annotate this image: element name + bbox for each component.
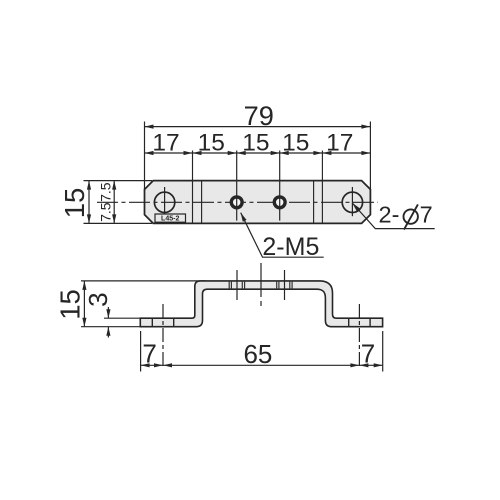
svg-text:15: 15 bbox=[59, 188, 90, 219]
front dim 15 line bbox=[83, 281, 85, 327]
svg-text:L45-2: L45-2 bbox=[161, 216, 179, 223]
front center axis bbox=[260, 263, 262, 306]
dim row line bbox=[145, 152, 371, 154]
hole phi7 left centerline bbox=[164, 187, 166, 214]
svg-text:2-: 2- bbox=[379, 201, 400, 227]
hole M5 left centerline bbox=[236, 151, 238, 221]
svg-text:15: 15 bbox=[198, 130, 225, 157]
svg-text:2-M5: 2-M5 bbox=[262, 233, 319, 261]
svg-text:17: 17 bbox=[326, 130, 353, 157]
front M5 left edge ticks bbox=[228, 281, 230, 289]
dim 79 ext left bbox=[144, 122, 146, 190]
stamp label box bbox=[155, 214, 186, 222]
top view plate body bbox=[145, 181, 371, 224]
svg-text:15: 15 bbox=[242, 130, 269, 157]
front M5 left centerline bbox=[236, 270, 238, 300]
front bottom ext right bbox=[382, 331, 384, 372]
hole M5 right thread ring bbox=[274, 197, 285, 208]
svg-text:79: 79 bbox=[244, 100, 274, 131]
front bottom ext left bbox=[140, 331, 142, 372]
svg-text:7.5: 7.5 bbox=[98, 182, 114, 202]
front bottom dim line bbox=[141, 364, 383, 366]
front phi7 right centerline bbox=[358, 304, 360, 368]
front dim 15 ext bottom bbox=[81, 326, 140, 328]
bend line right (solid, joins dimension) bbox=[321, 151, 323, 224]
bend line right partner bbox=[313, 181, 315, 224]
dim texts bbox=[55, 100, 433, 369]
leader 2-phi7 bbox=[352, 203, 435, 229]
front phi7 right edge ticks bbox=[348, 318, 350, 327]
hole phi7 left bbox=[154, 192, 174, 212]
hole phi7 right centerline bbox=[351, 187, 353, 216]
svg-text:3: 3 bbox=[83, 292, 113, 306]
front phi7 left centerline bbox=[162, 304, 164, 368]
svg-text:15: 15 bbox=[282, 130, 309, 157]
phi symbol of 2-phi7 bbox=[404, 209, 418, 223]
top view left ext bottom bbox=[84, 222, 153, 224]
hole M5 right centerline bbox=[279, 151, 281, 221]
dim 79 ext right bbox=[369, 122, 371, 190]
arrowheads bbox=[82, 125, 382, 368]
front M5 right centerline bbox=[284, 270, 286, 300]
dim 79 line bbox=[145, 126, 371, 128]
svg-text:7: 7 bbox=[420, 201, 433, 227]
svg-text:17: 17 bbox=[152, 130, 179, 157]
front M5 right edge ticks bbox=[276, 281, 278, 289]
svg-text:15: 15 bbox=[55, 289, 86, 320]
top view left ext top bbox=[84, 180, 153, 182]
bend line left (solid, joins dimension) bbox=[192, 151, 194, 224]
dim 7.5 line bbox=[113, 181, 115, 224]
hole M5 left thread ring bbox=[231, 197, 242, 208]
svg-text:7: 7 bbox=[361, 338, 375, 368]
front phi7 left edge ticks bbox=[151, 318, 153, 327]
bend line left partner bbox=[201, 181, 203, 224]
svg-text:7.5: 7.5 bbox=[98, 202, 114, 222]
svg-text:65: 65 bbox=[243, 339, 272, 369]
horizontal centerline top view bbox=[97, 201, 378, 203]
hole phi7 right bbox=[342, 192, 362, 212]
leader 2-M5 bbox=[241, 213, 324, 258]
svg-text:7: 7 bbox=[142, 338, 156, 368]
front dim 15 ext top bbox=[81, 280, 206, 282]
front dim 3 arrow tails bbox=[107, 307, 109, 318]
dim 15 left line bbox=[88, 181, 90, 224]
front view profile bbox=[140, 281, 382, 327]
front dim 3 ext bbox=[104, 317, 140, 319]
